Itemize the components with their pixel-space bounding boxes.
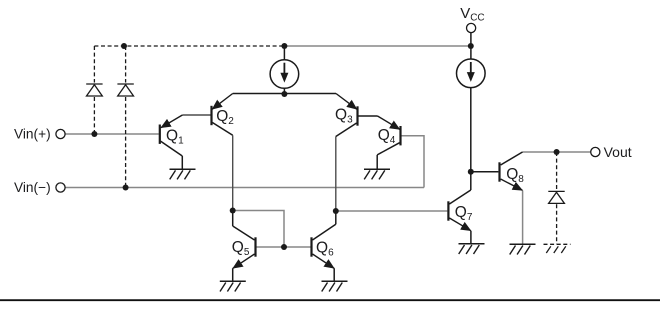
svg-text:Vin(−): Vin(−) [14,180,51,195]
svg-text:Vout: Vout [604,144,632,160]
svg-text:Vin(+): Vin(+) [14,127,51,142]
